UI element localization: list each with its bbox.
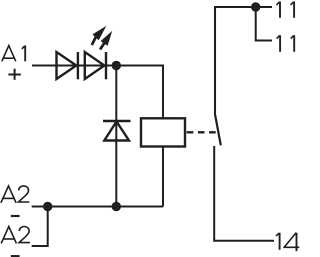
LED light arrow 1	[92, 26, 107, 45]
wire contact top terminal	[215, 7, 272, 116]
LED light arrow 2	[100, 31, 112, 50]
dashed mechanical link coil to contact	[187, 131, 217, 133]
terminal label A1	[2, 46, 25, 62]
terminal label 11 (first)	[277, 2, 295, 18]
contact blade 11-14	[215, 115, 221, 145]
junction node terminal 11	[251, 2, 260, 11]
wire A1 to coil top	[32, 66, 163, 119]
freewheeling diode cathode bar	[103, 120, 131, 122]
wire stub to second 11 terminal	[256, 7, 272, 41]
terminal label A2 (second)	[1, 227, 30, 244]
wire second A2 jumper	[32, 207, 48, 247]
wire contact bottom terminal to 14	[214, 146, 274, 241]
junction node at LED cathode	[112, 61, 121, 70]
terminal label A2 (first)	[1, 186, 30, 203]
terminal label 14	[276, 233, 299, 251]
relay coil K1	[141, 118, 185, 146]
diode D1 triangle	[57, 52, 77, 79]
wire bottom A2 rail	[32, 206, 163, 208]
freewheeling diode triangle	[104, 122, 129, 141]
minus polarity symbol 2	[11, 255, 20, 257]
junction node A2 terminal 1	[43, 202, 52, 211]
diode D1 cathode bar	[77, 52, 79, 79]
wire coil bottom lead	[162, 147, 164, 207]
LED cathode bar	[105, 52, 107, 79]
wire junction down through freewheel diode to bottom rail	[115, 66, 117, 207]
junction node bottom of freewheel branch	[112, 202, 121, 211]
LED triangle	[85, 52, 105, 79]
plus polarity symbol	[8, 69, 20, 80]
minus polarity symbol 1	[11, 215, 20, 217]
terminal label 11 (second)	[277, 35, 295, 52]
